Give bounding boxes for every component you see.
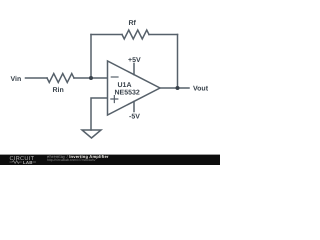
junction node at inverting input xyxy=(89,76,93,80)
svg-text:U1A: U1A xyxy=(118,82,132,89)
wire output xyxy=(160,87,189,89)
junction node at output xyxy=(176,86,180,90)
svg-text:Rf: Rf xyxy=(129,19,137,27)
svg-text:-5V: -5V xyxy=(129,114,140,121)
wire Rf to right corner xyxy=(149,34,178,36)
ground xyxy=(82,130,101,138)
svg-text:http://circuitlab.com/c/7mdx4a: http://circuitlab.com/c/7mdx4ahv xyxy=(47,158,96,162)
svg-text:LAB: LAB xyxy=(23,160,33,165)
op-amp plus sign xyxy=(111,96,118,103)
wire +input from ground xyxy=(91,98,107,130)
footer bar xyxy=(0,155,220,165)
svg-text:Vout: Vout xyxy=(193,86,209,93)
wire feedback left vertical xyxy=(90,35,92,79)
op-amp minus sign xyxy=(111,76,118,78)
wire +5V stub xyxy=(133,64,135,75)
wire Rin to inverting input xyxy=(74,77,107,79)
resistor Rf xyxy=(122,30,149,39)
wire Vin to Rin xyxy=(26,77,48,79)
svg-text:NE5532: NE5532 xyxy=(115,89,140,96)
svg-text:Rin: Rin xyxy=(53,86,64,94)
resistor Rin xyxy=(47,74,74,83)
wire -5V stub xyxy=(133,102,135,112)
svg-text:+5V: +5V xyxy=(128,57,141,64)
wire feedback right vertical xyxy=(177,35,179,89)
svg-text:Vin: Vin xyxy=(11,75,22,83)
op-amp U1A triangle xyxy=(108,61,161,115)
wire top left to Rf xyxy=(91,34,122,36)
logo CircuitLab xyxy=(10,156,37,165)
